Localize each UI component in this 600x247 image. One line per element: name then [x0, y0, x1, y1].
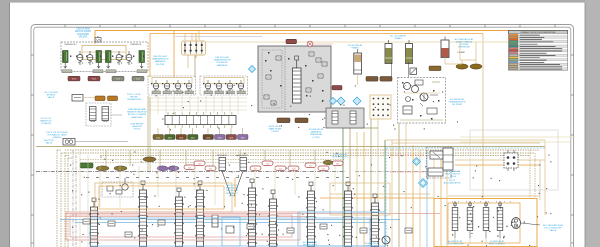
- svg-text:(4-PIN): (4-PIN): [271, 131, 278, 133]
- svg-text:SOLENOID AT: SOLENOID AT: [365, 242, 380, 245]
- svg-text:XXX: XXX: [241, 137, 246, 139]
- svg-text:4R-PLUG AT: 4R-PLUG AT: [269, 125, 282, 128]
- svg-text:HYDRAULIC TANK: HYDRAULIC TANK: [48, 134, 67, 137]
- svg-text:(INSIDE): (INSIDE): [53, 137, 62, 139]
- svg-text:10R-PLUG AT: 10R-PLUG AT: [153, 55, 167, 58]
- svg-text:IMPLEMENT: IMPLEMENT: [238, 155, 248, 157]
- svg-text:(10-PIN): (10-PIN): [156, 64, 165, 66]
- svg-text:RIDE CONTROL: RIDE CONTROL: [332, 157, 349, 159]
- svg-text:MANIFOLD: MANIFOLD: [40, 120, 52, 123]
- svg-text:OPERATIONS: OPERATIONS: [127, 98, 142, 101]
- svg-text:RIDE CONTROL: RIDE CONTROL: [489, 244, 506, 246]
- svg-text:PILOT OIL FILTER AT: PILOT OIL FILTER AT: [46, 131, 68, 134]
- svg-text:TRANS: TRANS: [394, 37, 402, 40]
- svg-text:TRANSMISSION: TRANSMISSION: [152, 58, 169, 61]
- svg-text:XXX: XXX: [206, 137, 211, 139]
- svg-text:SOLENOID AT: SOLENOID AT: [303, 241, 318, 244]
- svg-text:BOOM DRIFT: BOOM DRIFT: [303, 245, 317, 247]
- svg-text:SOLENOID AT: SOLENOID AT: [448, 240, 463, 243]
- svg-text:XXX: XXX: [218, 137, 223, 139]
- svg-text:XXX: XXX: [168, 137, 173, 139]
- svg-text:MAIN/AUX: MAIN/AUX: [311, 131, 322, 134]
- svg-text:XXX: XXX: [229, 137, 234, 139]
- svg-text:BYPASS: BYPASS: [47, 94, 56, 97]
- svg-text:OIL PUMP: OIL PUMP: [452, 104, 463, 106]
- svg-text:10R-PLUG AT: 10R-PLUG AT: [215, 56, 229, 59]
- svg-text:TRANSMISSION: TRANSMISSION: [449, 101, 466, 104]
- svg-text:SOLENOID AT: SOLENOID AT: [450, 98, 465, 101]
- svg-text:XXX: XXX: [116, 79, 121, 81]
- svg-text:XXX: XXX: [156, 137, 161, 139]
- svg-text:TRANSAXLE 1: TRANSAXLE 1: [64, 43, 77, 46]
- svg-text:TRANS: TRANS: [351, 47, 359, 50]
- svg-text:ACCUMULATOR AT: ACCUMULATOR AT: [543, 224, 563, 227]
- svg-text:OIL FILTER AT: OIL FILTER AT: [348, 44, 363, 47]
- svg-text:VALVE: VALVE: [48, 96, 55, 99]
- svg-text:(2-PIN): (2-PIN): [312, 137, 319, 139]
- svg-text:MAKEUP VALVE AT: MAKEUP VALVE AT: [127, 111, 147, 114]
- svg-text:CAB UP AND: CAB UP AND: [76, 28, 90, 31]
- svg-text:HEAD END: HEAD END: [131, 116, 143, 119]
- svg-text:HARNESS: HARNESS: [217, 64, 228, 67]
- svg-text:VALVE: VALVE: [450, 175, 457, 178]
- svg-text:PILOT SHUTOFF: PILOT SHUTOFF: [446, 244, 464, 246]
- svg-text:SOLENOID AT: SOLENOID AT: [309, 128, 324, 131]
- svg-text:VALVE: VALVE: [46, 142, 53, 145]
- svg-text:(2 VALVE): (2 VALVE): [41, 122, 51, 125]
- svg-text:GROUP DOWN: GROUP DOWN: [75, 31, 92, 33]
- svg-text:2-P MAX: 2-P MAX: [457, 51, 465, 54]
- svg-text:XXX: XXX: [92, 79, 97, 81]
- svg-text:IMPLEMENT: IMPLEMENT: [217, 155, 227, 157]
- svg-text:XXX: XXX: [191, 137, 196, 139]
- svg-text:VALVE AT: VALVE AT: [132, 125, 143, 128]
- svg-text:TRANSAXLE: TRANSAXLE: [130, 43, 142, 46]
- svg-text:SOLENOID AT: SOLENOID AT: [490, 240, 505, 243]
- svg-text:XXX: XXX: [72, 79, 77, 81]
- svg-text:XXX: XXX: [136, 79, 141, 81]
- svg-text:TRANSMISSION: TRANSMISSION: [214, 59, 231, 62]
- svg-text:LINE RELIEF AND: LINE RELIEF AND: [128, 108, 147, 111]
- svg-text:XXX: XXX: [179, 137, 184, 139]
- svg-text:HARNESS: HARNESS: [155, 60, 166, 63]
- svg-text:STICK: STICK: [134, 129, 141, 131]
- svg-text:PILOT OIL AT: PILOT OIL AT: [127, 93, 141, 96]
- svg-text:OIL COOLER AT: OIL COOLER AT: [390, 35, 407, 38]
- svg-text:SOLENOID: SOLENOID: [77, 34, 89, 36]
- svg-text:MAIN PUMP: MAIN PUMP: [269, 128, 282, 131]
- svg-text:VALVE: VALVE: [550, 229, 557, 232]
- svg-text:VALVES: VALVES: [79, 36, 88, 39]
- svg-text:ACCUMULATOR: ACCUMULATOR: [444, 182, 461, 185]
